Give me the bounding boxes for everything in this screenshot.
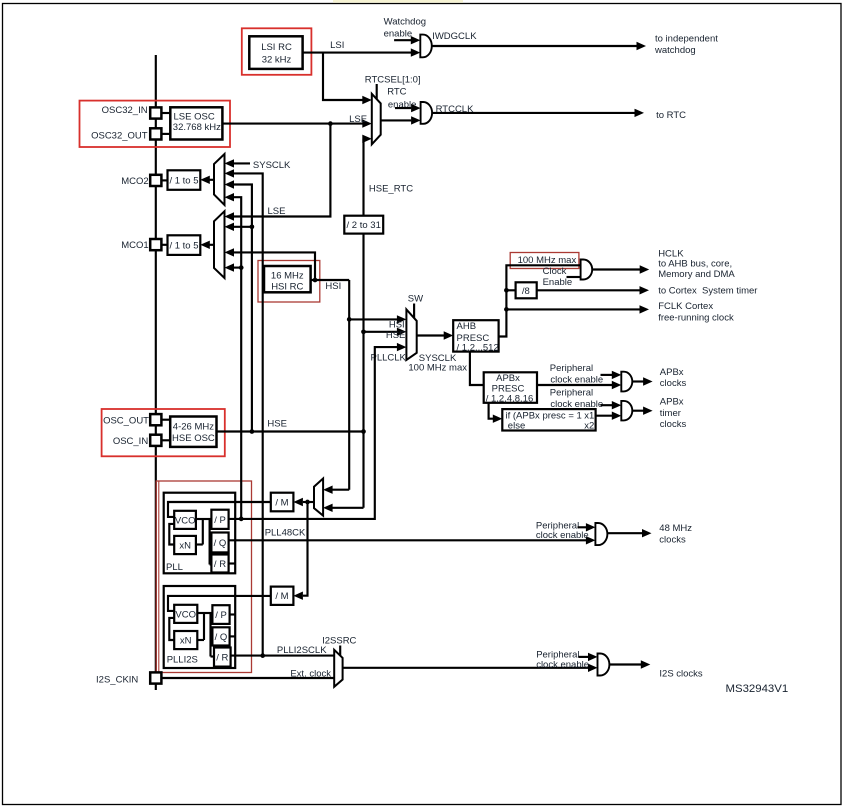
svg-text:OSC32_IN: OSC32_IN — [102, 105, 148, 116]
svg-text:APBx: APBx — [660, 397, 684, 408]
svg-text:HSI: HSI — [325, 281, 341, 292]
svg-text:to AHB bus, core,: to AHB bus, core, — [658, 259, 732, 270]
wire I2S clocks output — [609, 660, 650, 668]
svg-text:xN: xN — [179, 541, 191, 552]
svg-text:RTC: RTC — [387, 87, 406, 98]
svg-text:HSI: HSI — [389, 319, 405, 330]
wire RTCCLK to RTC — [432, 109, 644, 117]
svg-text:HSE: HSE — [386, 330, 406, 341]
red highlight rect 100 MHz max — [510, 253, 579, 269]
svg-text:/ P: / P — [214, 515, 226, 526]
svg-text:MCO2: MCO2 — [121, 176, 148, 187]
label Peripheral clock enable APBx timer — [550, 387, 603, 409]
svg-text:/ 1,2,..512: / 1,2,..512 — [457, 342, 499, 353]
svg-text:/ R: / R — [214, 559, 226, 570]
label RTC enable — [387, 87, 416, 111]
gate HCLK clock enable — [581, 260, 593, 280]
svg-text:LSI RC: LSI RC — [261, 42, 292, 53]
wire PLLCLK net — [229, 343, 407, 519]
svg-text:/ 1,2,4,8,16: / 1,2,4,8,16 — [486, 394, 534, 405]
wire FCLK — [506, 305, 649, 313]
wire PLL48CK net — [229, 536, 596, 544]
svg-text:LSE: LSE — [268, 206, 286, 217]
wire PLL mux to PLLI2S /M — [293, 502, 307, 600]
divider MCO2 /1 to 5 — [168, 170, 201, 190]
svg-text:x2: x2 — [584, 421, 594, 432]
svg-text:Memory and DMA: Memory and DMA — [658, 269, 735, 280]
wire /M to PLLI2S VCO — [168, 596, 271, 611]
wire HCLK output — [592, 265, 649, 273]
mux MCO2 source select — [214, 154, 225, 205]
red highlight rect HSE OSC — [102, 409, 225, 456]
wire PLLI2S to MCO2 mux input 2 (vertical x262.7) — [225, 169, 266, 658]
wire PLL mux output to /M — [293, 498, 314, 506]
divider PLLI2S /R — [214, 648, 231, 667]
svg-text:I2S clocks: I2S clocks — [659, 669, 703, 680]
wire Ext clock — [161, 677, 334, 679]
wire PLLI2S /Q stub — [230, 635, 236, 637]
svg-text:watchdog: watchdog — [654, 45, 696, 56]
svg-text:else: else — [508, 420, 525, 431]
wire peripheral clock enable I2S — [579, 653, 598, 661]
wire MCO1 mux output — [200, 241, 214, 249]
wire HSE to SW mux — [364, 328, 407, 336]
svg-text:OSC_IN: OSC_IN — [113, 436, 149, 447]
label Peripheral clock enable 48MHz — [536, 521, 589, 542]
wire MCO1 mux input 4 PLLCLK arrow — [225, 263, 242, 271]
divider PLL /M — [271, 493, 294, 512]
gate I2S clock enable — [598, 654, 610, 676]
wire PLL VCO to dividers — [196, 519, 212, 565]
svg-text:/ M: / M — [275, 498, 288, 509]
svg-text:HSE: HSE — [267, 419, 287, 430]
wire watchdog enable — [394, 36, 420, 44]
svg-text:Watchdog: Watchdog — [384, 17, 426, 28]
svg-text:clock enable: clock enable — [550, 399, 603, 410]
svg-text:LSE OSC: LSE OSC — [174, 111, 215, 122]
wire RTC enable — [395, 104, 421, 112]
chip boundary bus line — [155, 55, 157, 690]
wire HSI net — [311, 278, 407, 494]
wire APBx PRESC output — [537, 381, 621, 389]
wire PLLI2S feedback bracket — [169, 618, 174, 640]
block PLL outer — [164, 493, 236, 574]
svg-text:enable: enable — [384, 28, 413, 39]
divider APBx PRESC — [484, 372, 537, 404]
svg-text:PLLCLK: PLLCLK — [371, 352, 407, 363]
svg-text:clock enable: clock enable — [536, 659, 589, 670]
wire 48 MHz clocks output — [608, 529, 652, 537]
svg-text:OSC_OUT: OSC_OUT — [103, 416, 149, 427]
wire PLLCLK to MCO2 mux input 4 (vertical x241.2) — [225, 193, 244, 521]
svg-text:/ 2 to 31: / 2 to 31 — [347, 220, 381, 231]
wire HSE branch vertical with junctions — [361, 234, 366, 508]
gate APBx timer clock enable — [621, 401, 632, 421]
svg-text:to RTC: to RTC — [656, 110, 686, 121]
wire APBx clocks output — [632, 377, 653, 385]
svg-text:Peripheral: Peripheral — [550, 363, 593, 374]
divider PLL /P — [211, 510, 228, 529]
wire SYSCLK mux output — [417, 331, 454, 339]
svg-text:clock enable: clock enable — [536, 530, 589, 541]
wire clock enable into gate — [567, 276, 581, 278]
label Clock Enable — [543, 266, 573, 288]
divider PLL /Q — [211, 533, 228, 553]
pin OSC32_IN — [150, 107, 161, 118]
multiplier PLL xN — [174, 536, 196, 554]
svg-text:timer: timer — [660, 408, 681, 419]
svg-text:LSE: LSE — [349, 114, 367, 125]
red highlight rect LSE OSC — [80, 101, 231, 147]
svg-text:SW: SW — [408, 294, 423, 305]
wire APBx to if box — [489, 403, 503, 423]
svg-text:/8: /8 — [522, 286, 530, 297]
svg-text:SYSCLK: SYSCLK — [253, 160, 291, 171]
svg-text:clocks: clocks — [659, 535, 686, 546]
svg-text:Peripheral: Peripheral — [550, 387, 593, 398]
svg-text:16 MHz: 16 MHz — [271, 270, 304, 281]
svg-text:/ 1 to 5: / 1 to 5 — [169, 241, 198, 252]
oscillator PLLI2S VCO — [174, 605, 197, 623]
wire HSE to MCO2 mux input 3 (vertical x251.9) — [225, 180, 255, 434]
red highlight rect PLL/PLLI2S — [156, 481, 251, 673]
wire peripheral clock enable 48MHz — [578, 523, 596, 531]
svg-text:HSE_RTC: HSE_RTC — [369, 183, 413, 194]
mux MCO1 source select — [214, 211, 225, 278]
svg-text:I2S_CKIN: I2S_CKIN — [96, 675, 138, 686]
svg-text:VCO: VCO — [175, 515, 196, 526]
oscillator LSI RC 32 kHz — [249, 36, 302, 69]
wire PLLI2S VCO to dividers — [197, 613, 214, 657]
svg-text:HSE OSC: HSE OSC — [172, 433, 215, 444]
svg-text:/ M: / M — [275, 591, 288, 602]
red highlight rect HSI RC — [258, 261, 320, 303]
label Watchdog enable — [384, 17, 426, 40]
wire LSE net — [222, 119, 371, 220]
svg-text:4-26 MHz: 4-26 MHz — [173, 421, 214, 432]
pin I2S_CKIN — [150, 672, 161, 683]
svg-text:FCLK Cortex: FCLK Cortex — [658, 301, 713, 312]
svg-text:PLLI2S: PLLI2S — [167, 655, 198, 666]
divider AHB PRESC — [453, 320, 499, 353]
wire HSE line — [217, 430, 364, 432]
block if APBx presc — [502, 409, 595, 431]
red highlight rect PLLI2S inner edge — [158, 481, 160, 673]
red highlight rect LSI RC — [242, 28, 312, 75]
gate APBx clock enable — [621, 372, 632, 392]
svg-text:Ext. clock: Ext. clock — [290, 669, 331, 680]
wire peripheral clock enable APBx — [601, 371, 622, 379]
wire IWDGCLK to independent watchdog — [432, 42, 646, 50]
divider MCO1 /1 to 5 — [168, 235, 201, 255]
wire AHB PRESC output riser — [499, 265, 581, 336]
svg-text:RTCSEL[1:0]: RTCSEL[1:0] — [365, 74, 421, 85]
divider PLLI2S /M — [271, 587, 294, 605]
svg-text:MS32943V1: MS32943V1 — [726, 683, 789, 695]
svg-text:32 kHz: 32 kHz — [262, 54, 292, 65]
svg-text:Enable: Enable — [543, 277, 573, 288]
svg-text:OSC32_OUT: OSC32_OUT — [91, 130, 148, 141]
multiplier PLLI2S xN — [174, 631, 197, 649]
mux RTC source select — [372, 84, 381, 144]
label to independent watchdog — [654, 34, 718, 56]
svg-text:AHB: AHB — [457, 321, 477, 332]
svg-text:to Cortex System timer: to Cortex System timer — [658, 286, 757, 297]
wire RTC mux output — [381, 116, 421, 124]
label APBx timer clocks — [660, 397, 687, 430]
wire MCO1 pin to divider — [161, 244, 167, 246]
wire MCO1 mux input 2 HSE arrow — [225, 223, 252, 231]
svg-text:clocks: clocks — [660, 378, 687, 389]
wire AHB to APBx PRESC — [470, 352, 484, 385]
oscillator HSE OSC 4-26 MHz — [161, 417, 216, 447]
svg-text:48 MHz: 48 MHz — [659, 523, 692, 534]
gate 48MHz clock enable — [595, 523, 607, 545]
svg-text:100 MHz max: 100 MHz max — [518, 255, 577, 266]
wire PLLI2S /P stub — [230, 613, 236, 615]
svg-text:PLL48CK: PLL48CK — [265, 527, 306, 538]
label Peripheral clock enable APBx — [550, 363, 603, 386]
wire APBx timer clocks output — [632, 407, 653, 415]
divider PLL /R — [211, 555, 228, 573]
svg-text:IWDGCLK: IWDGCLK — [432, 31, 477, 42]
pin OSC_IN — [150, 435, 161, 446]
wire PLL feedback bracket — [169, 524, 174, 545]
svg-text:LSI: LSI — [330, 40, 344, 51]
svg-text:xN: xN — [180, 636, 192, 647]
pin MCO2 — [150, 175, 161, 186]
divider /8 — [516, 282, 537, 298]
mux PLL source select — [314, 479, 323, 516]
wire peripheral clock enable APBx timer — [601, 401, 622, 409]
svg-text:VCO: VCO — [175, 609, 196, 620]
wire if box to timer gate — [596, 412, 622, 420]
svg-text:PLLI2SCLK: PLLI2SCLK — [277, 645, 327, 656]
mux I2S source select — [334, 646, 342, 687]
gate RTC clock enable — [421, 102, 433, 124]
divider PLLI2S /Q — [212, 627, 229, 645]
wire PLLI2SCLK net — [231, 655, 335, 657]
wire MCO2 pin to divider — [161, 179, 167, 181]
block PLLI2S outer — [164, 586, 236, 668]
pin OSC32_OUT — [150, 128, 161, 139]
pin OSC_OUT — [150, 414, 161, 425]
svg-text:/ P: / P — [215, 610, 227, 621]
svg-text:Clock: Clock — [543, 266, 567, 277]
stray highlight mark top — [333, 0, 463, 3]
svg-text:APBx: APBx — [660, 367, 684, 378]
wire SYSCLK stub to MCO2 mux — [225, 159, 251, 167]
wire to Cortex System timer — [537, 286, 649, 294]
svg-text:/ Q: / Q — [215, 632, 228, 643]
label Peripheral clock enable I2S — [536, 649, 589, 670]
wire HSE_RTC vertical — [362, 135, 372, 216]
svg-text:to independent: to independent — [655, 34, 718, 45]
pin MCO1 — [150, 239, 161, 250]
svg-text:clocks: clocks — [660, 419, 687, 430]
wire I2S mux output — [343, 664, 598, 672]
wire HSE to PLL mux — [323, 504, 363, 512]
svg-text:100 MHz max: 100 MHz max — [408, 362, 467, 373]
wire LSI net — [303, 48, 421, 104]
oscillator LSE OSC 32.768 kHz — [161, 107, 222, 139]
oscillator HSI RC 16 MHz — [264, 266, 311, 293]
svg-text:/ R: / R — [216, 653, 228, 664]
svg-text:APBx: APBx — [496, 373, 520, 384]
divider PLLI2S /P — [212, 605, 229, 624]
mux SW system clock select — [406, 304, 416, 361]
svg-text:clock enable: clock enable — [550, 374, 603, 385]
svg-text:PLL: PLL — [166, 562, 183, 573]
label FCLK Cortex free-running clock — [658, 301, 734, 324]
label HCLK to AHB bus — [658, 248, 735, 280]
oscillator PLL VCO — [174, 511, 196, 529]
svg-text:32.768 kHz: 32.768 kHz — [173, 122, 221, 133]
label APBx clocks — [660, 367, 687, 389]
svg-text:/ Q: / Q — [214, 538, 227, 549]
wire MCO1 mux input 3 HSI link — [225, 248, 316, 280]
svg-text:free-running clock: free-running clock — [658, 313, 734, 324]
wire PLL /R stub — [229, 562, 236, 564]
wire to /8 divider — [506, 289, 515, 291]
svg-text:HSI RC: HSI RC — [271, 282, 303, 293]
label 48 MHz clocks — [659, 523, 692, 545]
svg-text:MCO1: MCO1 — [121, 240, 148, 251]
svg-text:/ 1 to 5: / 1 to 5 — [169, 176, 198, 187]
gate IWDG clock enable — [420, 35, 432, 58]
divider /2 to 31 — [344, 216, 383, 234]
wire /M to PLL VCO — [168, 502, 271, 517]
wire MCO2 mux output — [200, 176, 214, 184]
svg-text:I2SSRC: I2SSRC — [322, 636, 356, 647]
